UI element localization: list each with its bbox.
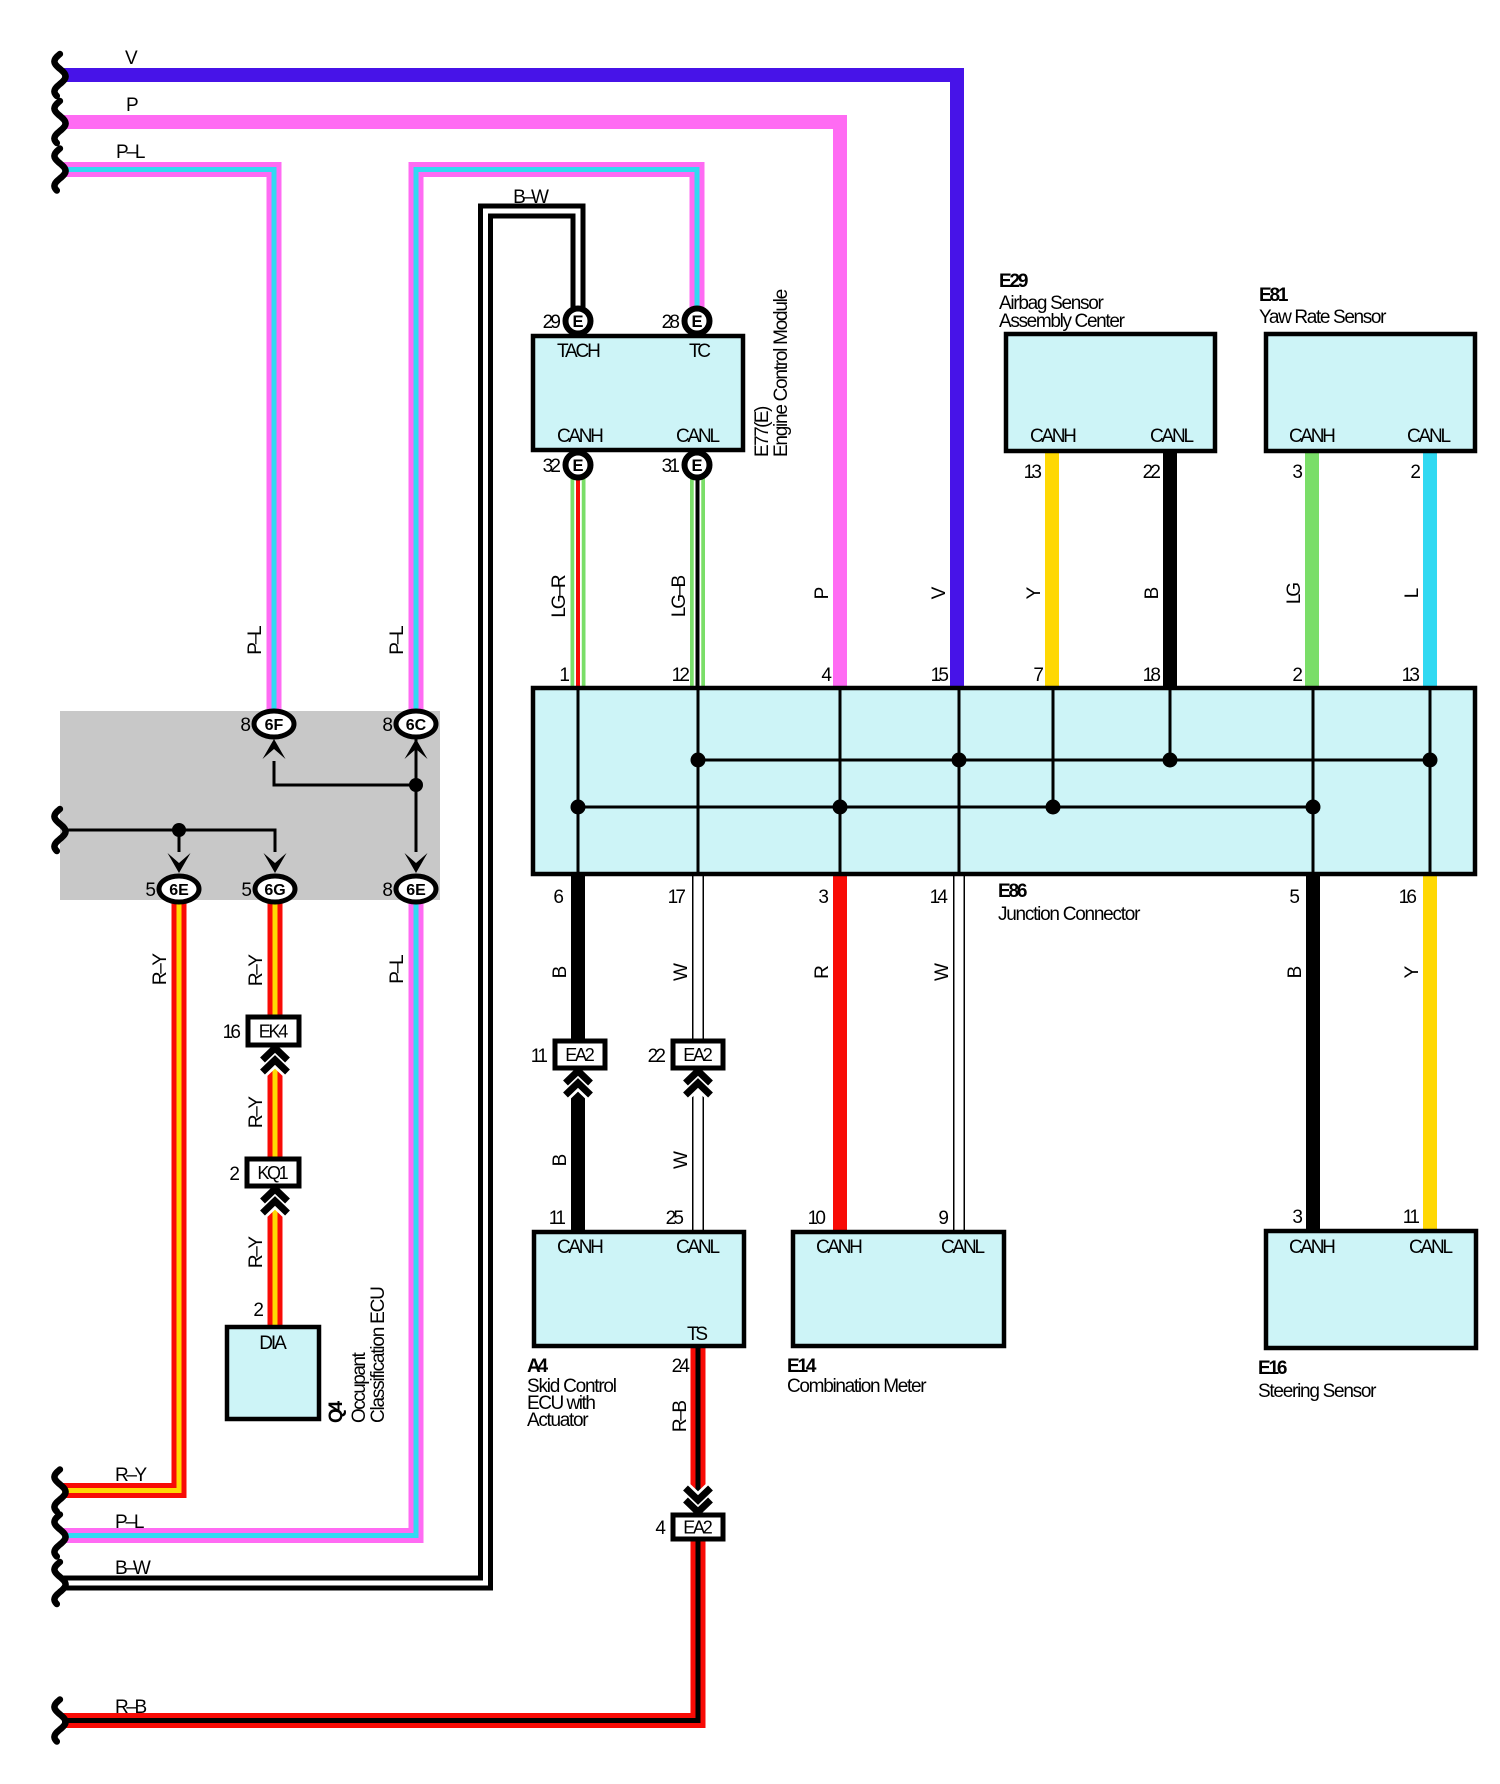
E86 CANL bus [698,759,1430,762]
wire LG-R from ECM pin 32 to junction pin 1 [571,477,586,690]
svg-text:5: 5 [145,880,156,901]
ECM pin 32 CANH [566,453,591,478]
svg-text:12: 12 [672,665,690,686]
wire P-L pair branch: 6C up to TC pin 28 [416,170,697,714]
junction node [1163,753,1178,768]
svg-text:B: B [550,966,571,979]
svg-text:24: 24 [672,1356,691,1377]
svg-text:P–L: P–L [116,142,145,163]
svg-text:2: 2 [229,1164,240,1185]
svg-text:Junction Connector: Junction Connector [998,904,1141,925]
junction node [833,800,848,815]
svg-text:3: 3 [818,887,829,908]
svg-text:EK4: EK4 [259,1022,289,1042]
svg-text:Occupant: Occupant [349,1351,370,1423]
wire P-L pair from connector 6E to bottom harness [62,900,416,1536]
ECM pin 28 TC [685,309,710,334]
connector EA2 pin 22 [686,1071,711,1083]
svg-text:EA2: EA2 [683,1518,713,1538]
svg-text:W: W [671,1151,692,1169]
arrow into 6G [264,853,287,873]
harness cut mark B-W [54,1562,65,1604]
svg-text:CANH: CANH [816,1237,863,1258]
svg-text:16: 16 [1399,887,1417,908]
wire R from junction pin 3 to E14 pin 10 [833,872,847,1232]
svg-text:CANH: CANH [1289,1237,1336,1258]
wire Y from junction pin 16 to E16 pin 11 [1423,872,1437,1231]
svg-text:R–Y: R–Y [150,953,171,986]
svg-text:11: 11 [549,1208,566,1229]
ECM pin 29 TACH [566,309,591,334]
arrow into 6E right [405,853,428,873]
wire R-B from A4 TS pin 24 to bottom harness [62,1348,698,1721]
wire B from junction pin 5 to E16 pin 3 [1306,872,1320,1231]
connector KQ1 pin 2 [263,1189,288,1201]
connector 6E left [159,876,199,902]
connector 6F [254,711,294,737]
svg-text:L: L [1402,588,1423,599]
svg-text:5: 5 [1289,887,1300,908]
svg-text:3: 3 [1292,1207,1303,1228]
svg-text:22: 22 [1143,462,1161,483]
svg-text:6G: 6G [264,882,285,899]
svg-text:2: 2 [1410,462,1421,483]
svg-text:22: 22 [648,1046,666,1067]
svg-text:CANH: CANH [1289,426,1336,447]
svg-text:CANL: CANL [676,1237,720,1258]
svg-text:3: 3 [1292,462,1303,483]
svg-text:CANL: CANL [1409,1237,1453,1258]
svg-text:5: 5 [241,880,252,901]
svg-text:R–Y: R–Y [115,1465,148,1486]
svg-text:Combination Meter: Combination Meter [787,1376,927,1397]
svg-text:CANL: CANL [1150,426,1194,447]
svg-text:B: B [1285,966,1306,979]
svg-text:P–L: P–L [387,954,408,983]
ECM pin 31 CANL [685,453,710,478]
svg-text:Steering Sensor: Steering Sensor [1258,1381,1377,1402]
box Q4 DIA Occupant Classification ECU [227,1327,319,1419]
svg-text:V: V [929,586,950,599]
svg-text:R–Y: R–Y [246,1096,267,1129]
harness cut mark R-Y [54,1470,65,1512]
svg-text:CANH: CANH [1030,426,1077,447]
svg-text:32: 32 [543,456,561,477]
svg-text:V: V [125,48,138,69]
svg-text:Engine Control Module: Engine Control Module [771,289,792,457]
svg-text:2: 2 [253,1300,264,1321]
svg-text:E: E [572,457,583,475]
svg-text:4: 4 [821,665,832,686]
svg-text:DIA: DIA [259,1333,287,1354]
box E14 Combination Meter [793,1232,1004,1346]
junction node [1423,753,1438,768]
connector EK4 pin 16 [263,1048,288,1060]
svg-text:28: 28 [662,312,680,333]
svg-text:EA2: EA2 [565,1045,595,1065]
svg-text:16: 16 [223,1022,241,1043]
harness cut mark P-L [54,1515,65,1557]
svg-text:P: P [126,95,139,116]
wire P from harness to junction pin 4 [62,122,840,688]
svg-text:8: 8 [382,715,393,736]
connector 6C [396,711,436,737]
wire P-L pair from harness to connector 6F [62,170,274,715]
arrow into 6E left [168,853,191,873]
box E81 Yaw Rate Sensor [1266,334,1475,451]
svg-text:29: 29 [543,312,561,333]
svg-text:13: 13 [1024,462,1042,483]
E86 internal verticals [577,690,580,872]
svg-text:B–W: B–W [513,187,549,208]
junction node [1306,800,1321,815]
harness cut mark P [54,101,65,143]
wire B from E29 CANL pin 22 to junction pin 18 [1163,452,1177,690]
harness cut mark R-B [54,1700,65,1742]
svg-text:LG–B: LG–B [669,575,690,617]
svg-text:31: 31 [662,456,680,477]
svg-text:E: E [691,457,702,475]
svg-text:Actuator: Actuator [527,1410,589,1431]
svg-text:9: 9 [938,1208,949,1229]
E86 CANH bus [578,806,1313,809]
svg-text:10: 10 [808,1208,826,1229]
svg-text:6E: 6E [169,882,189,899]
svg-text:8: 8 [240,715,251,736]
svg-text:Yaw Rate Sensor: Yaw Rate Sensor [1259,307,1387,328]
svg-text:CANH: CANH [557,426,604,447]
box A4 Skid Control ECU with Actuator [534,1232,744,1346]
svg-text:E81: E81 [1259,285,1289,306]
op ECM box E77(E) [533,336,743,450]
svg-text:B–W: B–W [115,1558,151,1579]
svg-text:Assembly Center: Assembly Center [999,311,1126,332]
svg-text:17: 17 [668,887,686,908]
svg-text:LG: LG [1284,582,1305,604]
svg-text:B: B [550,1154,571,1167]
svg-text:18: 18 [1143,665,1161,686]
wire Y from E29 CANH pin 13 to junction pin 7 [1045,452,1059,690]
wire B from junction pin 6 to A4 pin 11 [571,872,585,1232]
svg-text:CANL: CANL [1407,426,1451,447]
svg-text:R–Y: R–Y [246,1236,267,1269]
svg-text:CANH: CANH [557,1237,604,1258]
svg-text:8: 8 [382,880,393,901]
svg-text:R: R [812,965,833,979]
svg-text:CANL: CANL [676,426,720,447]
wire internal: harness to 6E and 6G [54,809,65,851]
wire LG-B from ECM pin 31 to junction pin 12 [690,477,705,690]
junction node [571,800,586,815]
svg-text:15: 15 [931,665,949,686]
svg-text:2: 2 [1292,665,1303,686]
svg-text:EA2: EA2 [683,1045,713,1065]
connector 6E right [396,876,436,902]
svg-text:6C: 6C [406,717,427,734]
svg-text:E86: E86 [998,881,1027,902]
shielded group box [60,711,440,900]
arrow into 6C [405,739,428,759]
wire W from junction pin 14 to E14 pin 9 [953,872,965,1232]
svg-text:11: 11 [531,1046,548,1067]
svg-text:A4: A4 [527,1356,549,1377]
svg-text:LG–R: LG–R [549,574,570,617]
svg-text:14: 14 [930,887,949,908]
svg-text:6F: 6F [265,717,284,734]
svg-text:KQ1: KQ1 [257,1163,288,1183]
wire V from harness to junction pin 15 [62,75,957,688]
svg-text:W: W [671,963,692,981]
svg-text:1: 1 [559,665,570,686]
svg-text:R–B: R–B [670,1400,691,1432]
junction node [691,753,706,768]
wire L from E81 CANL pin 2 to junction pin 13 [1423,452,1437,690]
svg-text:P–L: P–L [115,1512,144,1533]
svg-text:Q4: Q4 [326,1400,347,1423]
svg-text:E14: E14 [787,1356,817,1377]
junction node [952,753,967,768]
svg-text:CANL: CANL [941,1237,985,1258]
svg-text:B: B [1142,587,1163,600]
svg-text:Y: Y [1402,965,1423,978]
junction node [1046,800,1061,815]
svg-text:6: 6 [553,887,564,908]
svg-text:TS: TS [687,1324,708,1345]
svg-text:6E: 6E [406,882,426,899]
svg-text:TACH: TACH [557,341,601,362]
svg-text:R–B: R–B [115,1697,147,1718]
harness cut mark V [54,54,65,96]
svg-text:Classification ECU: Classification ECU [368,1286,389,1423]
connector 6G [255,876,295,902]
svg-text:13: 13 [1402,665,1420,686]
svg-text:TC: TC [689,341,711,362]
arrow into 6F [263,739,286,759]
svg-text:E16: E16 [1258,1358,1287,1379]
connector EA2 pin 4 [686,1488,711,1500]
svg-text:E: E [691,313,702,331]
box E16 Steering Sensor [1266,1231,1476,1348]
svg-text:Y: Y [1024,586,1045,599]
svg-text:R–Y: R–Y [246,954,267,987]
wire R-Y from connector 6E to bottom harness [62,898,179,1491]
svg-text:P: P [812,587,833,600]
wire B-W from bottom harness up to TACH pin 29 [62,211,578,1583]
svg-text:E77(E): E77(E) [752,406,773,457]
svg-text:4: 4 [655,1518,666,1539]
svg-text:E29: E29 [999,271,1028,292]
connector EA2 pin 11 [566,1071,591,1083]
svg-text:W: W [932,963,953,981]
junction connector E86 box [533,688,1475,874]
wire LG from E81 CANH pin 3 to junction pin 2 [1305,452,1319,690]
svg-text:25: 25 [666,1208,684,1229]
svg-text:P–L: P–L [245,625,266,654]
svg-text:7: 7 [1033,665,1044,686]
svg-text:P–L: P–L [387,625,408,654]
box E29 Airbag Sensor Assembly Center [1006,334,1215,451]
wire internal: 6C to 6E with branch to 6F [415,737,418,852]
svg-text:11: 11 [1403,1207,1420,1228]
wire R-Y from connector 6G through EK4 and KQ1 to Q4 pin 2 [268,898,283,1327]
svg-text:E: E [572,313,583,331]
harness cut mark P-L [54,149,65,191]
wire W from junction pin 17 to A4 pin 25 [692,872,704,1232]
